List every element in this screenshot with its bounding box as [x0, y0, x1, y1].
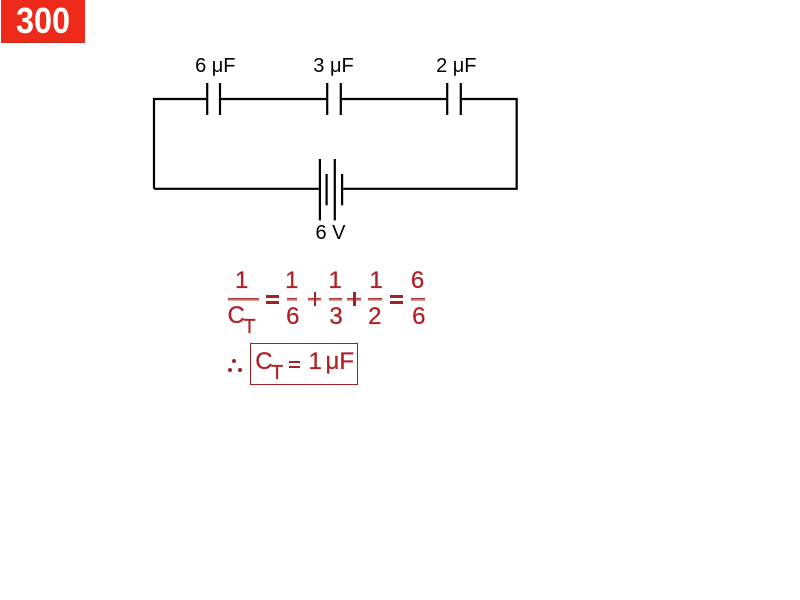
- fraction 3 bar: [329, 298, 343, 301]
- equals sign 1: [266, 295, 279, 297]
- wire: C3 to right corner down to battery right: [343, 99, 517, 189]
- result box: [250, 343, 358, 385]
- fraction 3 numerator 1: [329, 269, 342, 293]
- fraction 5 denominator 6: [412, 305, 425, 329]
- battery B1 (6 V): long plate: [319, 159, 321, 220]
- capacitor C1 (6 uF) plates: [206, 83, 208, 115]
- result value 1 uF: [309, 350, 355, 374]
- wire: battery left to bottom-left corner: [154, 188, 319, 190]
- fraction 1 bar: [228, 298, 259, 301]
- fraction 5 bar: [411, 298, 426, 301]
- battery B1 short plate: [341, 174, 343, 205]
- fraction 2 numerator 1: [285, 269, 298, 293]
- fraction 4 bar: [368, 298, 383, 301]
- fraction 1 denominator C_T: [228, 304, 256, 337]
- battery B1 long plate: [334, 159, 336, 220]
- label C1 value 6 uF: [195, 56, 235, 76]
- battery B1 short plate: [326, 174, 328, 205]
- plus sign 1: [308, 298, 321, 301]
- plus sign 2: [347, 298, 360, 301]
- fraction 1 numerator 1: [235, 269, 248, 293]
- wire: C2 to C3: [342, 98, 446, 100]
- therefore sign (three dots): [232, 359, 236, 363]
- fraction 5 numerator 6: [411, 269, 424, 293]
- result C_T: [255, 350, 283, 383]
- wire: C1 to C2: [221, 98, 326, 100]
- label battery value 6 V: [315, 223, 345, 243]
- capacitor C3 (2 uF) plates: [446, 83, 448, 115]
- equals sign 3: [289, 361, 300, 363]
- label C3 value 2 uF: [436, 56, 476, 76]
- fraction 2 bar: [287, 298, 298, 301]
- label C2 value 3 uF: [313, 56, 353, 76]
- fraction 4 numerator 1: [369, 269, 382, 293]
- equals sign 2: [390, 295, 403, 297]
- wire: top-left segment (left corner to C1): [154, 99, 206, 189]
- fraction 3 denominator 3: [329, 305, 342, 329]
- capacitor C2 (3 uF) plates: [326, 83, 328, 115]
- points badge "300": [1, 0, 85, 43]
- fraction 2 denominator 6: [286, 305, 299, 329]
- fraction 4 denominator 2: [368, 305, 381, 329]
